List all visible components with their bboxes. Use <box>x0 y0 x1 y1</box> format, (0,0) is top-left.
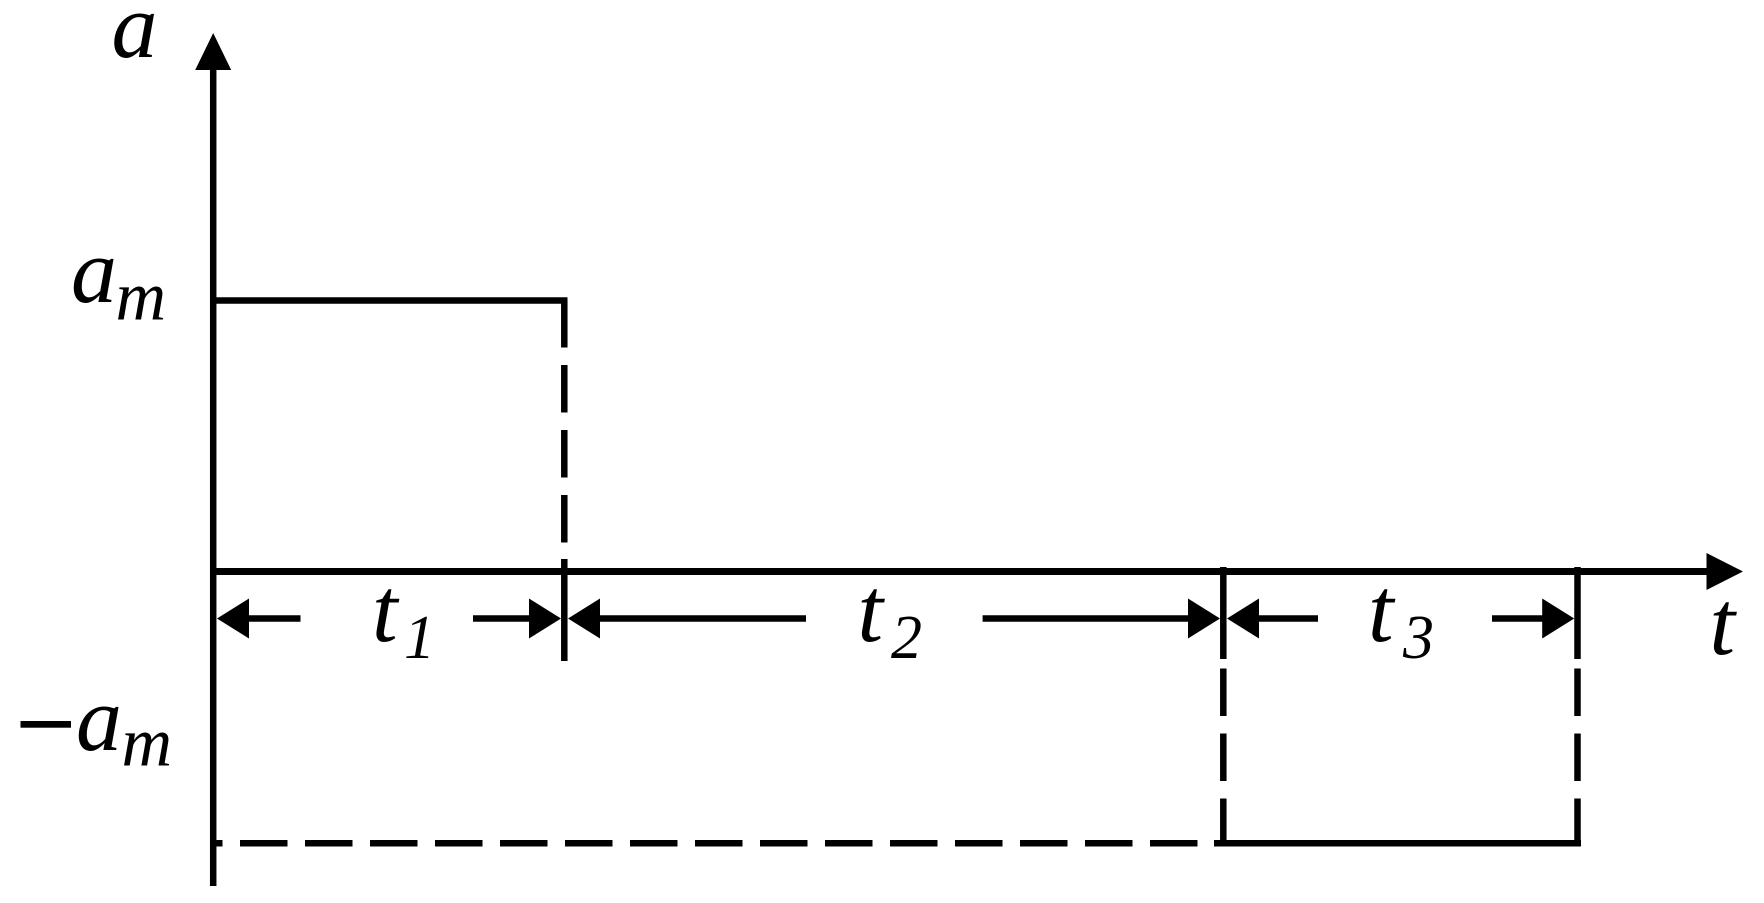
svg-text:m: m <box>122 705 173 782</box>
t2 dimension right arrowhead <box>1188 599 1220 639</box>
y-axis (a axis) line <box>210 64 217 886</box>
svg-text:t: t <box>372 559 400 661</box>
svg-text:3: 3 <box>1402 604 1434 672</box>
solid segment at -a_m between t2 end and t3 end <box>1214 840 1581 847</box>
dashed horizontal at -a_m level <box>216 840 1214 847</box>
acceleration step at +a_m: solid horizontal segment <box>213 297 568 304</box>
svg-text:a: a <box>71 220 117 322</box>
t3 dimension right arrowhead <box>1542 599 1574 639</box>
t3 dimension right arrow shaft <box>1492 615 1543 622</box>
t1 dimension right arrowhead <box>529 599 561 639</box>
t2 dimension left arrowhead <box>568 599 600 639</box>
svg-text:a: a <box>76 668 122 770</box>
dashed vertical at t2 end down to -a_m <box>1220 669 1227 844</box>
t2 dimension left arrow shaft <box>599 615 806 622</box>
t1 dimension right arrow shaft <box>473 615 530 622</box>
-a_m label minus <box>21 721 72 728</box>
dashed vertical at t3 end down to -a_m <box>1574 669 1581 844</box>
t1 dimension left arrow shaft <box>248 615 301 622</box>
solid extension of t1 vertical through axis <box>561 559 568 661</box>
dashed vertical drop at t1 <box>561 300 568 560</box>
solid extension below axis at t3 end <box>1574 567 1581 659</box>
x-axis arrowhead <box>1707 553 1744 590</box>
t2 dimension right arrow shaft <box>983 615 1190 622</box>
svg-text:m: m <box>116 259 167 336</box>
t3 dimension left arrowhead <box>1227 599 1259 639</box>
svg-text:a: a <box>112 0 158 77</box>
svg-text:t: t <box>1368 559 1396 661</box>
svg-text:2: 2 <box>891 604 922 672</box>
svg-text:t: t <box>1710 572 1738 674</box>
t1 dimension left arrowhead <box>217 599 249 639</box>
t3 dimension left arrow shaft <box>1258 615 1318 622</box>
svg-text:t: t <box>858 559 886 661</box>
svg-text:1: 1 <box>404 604 435 672</box>
solid extension below axis at t2 end <box>1220 567 1227 659</box>
y-axis arrowhead <box>195 33 231 70</box>
x-axis (t axis) line <box>213 568 1712 575</box>
